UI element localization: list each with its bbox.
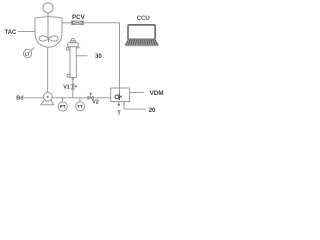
line PCV to right (83, 22, 119, 24)
temperature transmitter TT (76, 102, 85, 111)
column 30 upper left nozzle (67, 47, 69, 50)
tank outlet pipe (47, 47, 49, 92)
temperature transmitter TT stub (79, 98, 81, 102)
svg-text:Bd: Bd (16, 95, 23, 101)
column 30 head (68, 43, 78, 47)
valve V1 (72, 84, 75, 89)
svg-text:PT: PT (60, 104, 66, 109)
column 30 upper right stub (76, 47, 80, 49)
valve PCV (72, 21, 84, 25)
svg-text:CCU: CCU (137, 16, 150, 22)
pump base (41, 100, 54, 105)
svg-text:20: 20 (149, 108, 156, 114)
column 30 knob (72, 39, 75, 41)
T arrow (118, 102, 120, 105)
box G1 (111, 88, 130, 102)
pump P (43, 92, 52, 101)
motor M (43, 3, 53, 13)
level transmitter LT tick (31, 48, 35, 51)
svg-text:30: 30 (95, 54, 102, 60)
svg-text:TT: TT (77, 104, 83, 109)
label Bd leader (24, 97, 43, 99)
svg-text:V2: V2 (92, 100, 99, 106)
valve V2 (88, 96, 93, 99)
label VDM leader (130, 92, 144, 94)
G1 symbol (119, 88, 121, 95)
column 30 body (70, 47, 76, 78)
label 30 leader (76, 55, 87, 57)
laptop CCU screen (128, 25, 155, 39)
column 30 lower left nozzle (67, 74, 70, 77)
svg-text:TAC: TAC (5, 30, 18, 36)
impeller (39, 36, 58, 41)
svg-text:V1: V1 (63, 84, 70, 90)
tank TAC rim (35, 17, 62, 18)
pressure transmitter PT stub (62, 98, 64, 102)
svg-text:VDM: VDM (150, 90, 164, 97)
pipe column to main line (72, 79, 74, 98)
svg-text:T: T (117, 111, 121, 117)
column 30 cap (70, 41, 75, 43)
line tank to PCV (62, 22, 72, 24)
main bottom line (52, 97, 111, 99)
svg-text:PCV: PCV (72, 14, 86, 21)
column 30 bottom stub (72, 78, 73, 80)
label 20 leader (124, 102, 146, 110)
level transmitter LT (23, 49, 31, 57)
agitator shaft (47, 13, 49, 39)
label TAC leader (18, 31, 35, 33)
svg-text:LT: LT (25, 51, 30, 56)
pressure transmitter PT (58, 102, 67, 111)
laptop CCU keyboard (124, 40, 159, 47)
tank TAC body (35, 18, 62, 47)
right vertical line (119, 23, 121, 96)
